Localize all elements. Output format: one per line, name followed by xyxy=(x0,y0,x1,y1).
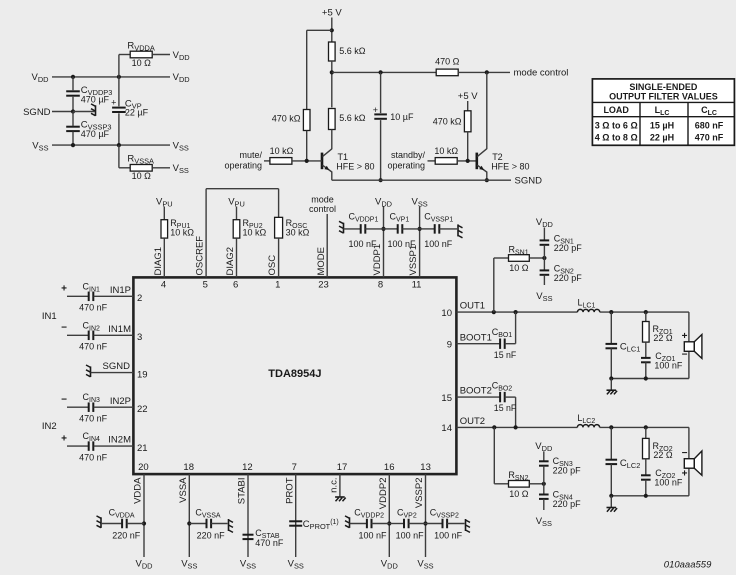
resistor RPU2 xyxy=(233,218,266,238)
wire +5V T2 down xyxy=(467,101,469,111)
svg-text:−: − xyxy=(682,448,688,459)
pin label VSSP2 xyxy=(414,478,425,509)
svg-text:10 Ω: 10 Ω xyxy=(509,263,529,273)
pin number 17 xyxy=(337,462,348,473)
svg-text:VSS​: VSS​ xyxy=(417,559,433,571)
wire SGND pin19 xyxy=(91,372,134,374)
junction xyxy=(187,521,191,525)
wire to RVDDA xyxy=(119,55,130,77)
junction xyxy=(492,425,496,429)
wire mode rail right xyxy=(458,71,510,73)
svg-text:BOOT1: BOOT1 xyxy=(460,332,492,343)
svg-text:CIN1​: CIN1​ xyxy=(83,281,101,293)
wire SGND rail xyxy=(332,179,511,181)
pin label IN1P xyxy=(110,285,131,296)
pin number 21 xyxy=(137,443,148,454)
pin label OUT2 xyxy=(460,416,485,427)
wire LLC2 to speaker xyxy=(600,426,689,428)
svg-text:CIN4​: CIN4​ xyxy=(83,431,101,443)
svg-text:VDD​: VDD​ xyxy=(173,72,190,84)
svg-text:470 nF: 470 nF xyxy=(79,303,108,313)
wire BOOT2 pin15 xyxy=(456,396,500,398)
wire BOOT1 pin9 xyxy=(456,343,500,345)
capacitor CZO2 xyxy=(641,459,683,496)
node SGND label right xyxy=(515,176,543,187)
svg-text:RVSSA​: RVSSA​ xyxy=(127,154,154,166)
svg-text:VSS​: VSS​ xyxy=(32,140,48,152)
svg-text:CVDDP1​: CVDDP1​ xyxy=(349,212,379,224)
resistor 470 kOhm (T1 base pullup) xyxy=(272,110,310,131)
wire pin7 PROT xyxy=(295,474,297,557)
wire emitter T1 to SGND rail xyxy=(331,172,333,181)
resistor RSN2 xyxy=(508,470,529,499)
svg-text:+: + xyxy=(61,434,67,445)
svg-text:18: 18 xyxy=(183,462,194,473)
svg-text:IN2: IN2 xyxy=(42,421,57,432)
svg-text:2: 2 xyxy=(137,293,142,304)
svg-text:22 Ω: 22 Ω xyxy=(653,333,673,343)
wire pin5 OSCREF bracket xyxy=(206,189,279,278)
svg-text:10: 10 xyxy=(441,308,452,319)
svg-text:470 nF: 470 nF xyxy=(79,452,108,462)
junction xyxy=(381,227,385,231)
junction xyxy=(423,521,427,525)
wire pin18 VSSA xyxy=(188,474,190,557)
svg-text:OUT2: OUT2 xyxy=(460,416,485,427)
junction xyxy=(609,494,613,498)
svg-text:15: 15 xyxy=(441,393,452,404)
capacitor CVP2 xyxy=(389,507,425,540)
junction xyxy=(379,70,383,74)
pin label OUT1 xyxy=(460,301,485,312)
junction xyxy=(330,28,334,32)
svg-text:10 kΩ: 10 kΩ xyxy=(270,146,294,156)
svg-text:100 nF: 100 nF xyxy=(396,531,425,541)
node VDD snubber2 xyxy=(535,441,552,453)
capacitor CBO1 xyxy=(492,312,517,360)
svg-text:LOAD: LOAD xyxy=(603,105,629,115)
wire T2 emitter xyxy=(486,172,488,181)
node VSS pin18 xyxy=(181,559,197,571)
ground rake right of CVSSA xyxy=(229,519,234,532)
svg-text:IN2P: IN2P xyxy=(110,396,131,407)
pin number 15 xyxy=(441,393,452,404)
svg-text:operating: operating xyxy=(224,160,262,170)
node VSS label (RVSSA) xyxy=(173,163,189,175)
svg-text:VDD​: VDD​ xyxy=(381,559,398,571)
svg-text:220 pF: 220 pF xyxy=(554,243,583,253)
ground rake right of CVSSP1 xyxy=(458,224,463,237)
resistor RZO2 xyxy=(643,427,673,460)
node mute/operating xyxy=(224,150,262,170)
svg-text:10 µF: 10 µF xyxy=(390,112,414,122)
svg-text:220 pF: 220 pF xyxy=(553,466,582,476)
svg-text:100 nF: 100 nF xyxy=(434,531,463,541)
wire speaker1 vertical xyxy=(688,312,690,378)
capacitor CPROT xyxy=(289,519,339,531)
ground sgnd rake xyxy=(73,104,96,116)
node VPU pin4 xyxy=(156,197,173,209)
resistor 470 Ohm (mode) xyxy=(435,57,460,76)
wire bottom rail out2 xyxy=(611,495,689,497)
junction xyxy=(644,425,648,429)
svg-text:15 nF: 15 nF xyxy=(494,403,517,413)
svg-text:22 µH: 22 µH xyxy=(650,132,674,142)
svg-text:1: 1 xyxy=(275,279,280,290)
junction xyxy=(485,178,489,182)
wire VDD rail xyxy=(52,76,170,78)
pin number 18 xyxy=(183,462,194,473)
resistor ROSC xyxy=(275,217,310,238)
svg-text:3: 3 xyxy=(137,332,142,343)
junction xyxy=(71,109,75,113)
wire between resistors xyxy=(331,61,333,107)
wire +5V down xyxy=(331,18,333,43)
svg-text:SGND: SGND xyxy=(23,107,51,118)
figure id 010aaa559 xyxy=(664,559,712,570)
wire RSN2 to CSN junction xyxy=(529,483,543,485)
svg-text:470 µF: 470 µF xyxy=(81,95,110,105)
wire 470k to base xyxy=(306,131,308,161)
svg-text:OSC: OSC xyxy=(267,255,278,276)
wire pin6 upper xyxy=(236,207,238,220)
pin number 1 xyxy=(275,279,280,290)
svg-text:−: − xyxy=(682,350,688,361)
svg-text:+: + xyxy=(111,98,116,108)
wire standby stub xyxy=(428,160,436,162)
resistor 470 kOhm (T2) xyxy=(433,111,471,132)
wire OUT1 pin10 xyxy=(456,311,577,313)
wire 10k to T1 base xyxy=(292,160,322,162)
svg-text:VDD​: VDD​ xyxy=(32,72,49,84)
svg-text:470 nF: 470 nF xyxy=(695,132,724,142)
pin label SGND xyxy=(103,361,131,372)
wire CVSSP3 to VSS xyxy=(72,112,74,146)
svg-text:5.6 kΩ: 5.6 kΩ xyxy=(339,46,366,56)
capacitor CVDDP3 xyxy=(66,77,112,112)
node VDD pin16 xyxy=(381,559,398,571)
svg-text:OUT1: OUT1 xyxy=(460,301,485,312)
pin label n.c. xyxy=(329,478,340,493)
node VDD label right xyxy=(173,72,190,84)
junction xyxy=(609,376,613,380)
ground rake left of CVDDP2 xyxy=(345,516,350,528)
inductor LLC2 xyxy=(577,413,599,428)
node VSS label left xyxy=(32,140,48,152)
svg-text:IN1P: IN1P xyxy=(110,285,131,296)
op-amp U1 TDA8954J body xyxy=(133,277,456,474)
capacitor CVP xyxy=(111,77,148,145)
wire pin6 DIAG2 xyxy=(236,238,238,277)
svg-text:VSS​: VSS​ xyxy=(240,559,256,571)
pin number 22 xyxy=(137,404,148,415)
svg-text:470 nF: 470 nF xyxy=(79,342,108,352)
resistor 5.6 kOhm lower xyxy=(329,109,366,130)
svg-text:RVDDA​: RVDDA​ xyxy=(127,40,154,52)
svg-text:220 nF: 220 nF xyxy=(197,531,226,541)
capacitor 10uF xyxy=(373,72,414,180)
svg-text:mode control: mode control xyxy=(514,68,569,79)
node IN2 xyxy=(42,421,57,432)
junction xyxy=(117,75,121,79)
svg-text:HFE > 80: HFE > 80 xyxy=(491,161,529,171)
svg-text:470 kΩ: 470 kΩ xyxy=(433,117,462,127)
svg-text:control: control xyxy=(309,204,336,214)
ground rake right of CVSSP2 xyxy=(466,519,471,532)
svg-text:LLC1​: LLC1​ xyxy=(578,298,596,310)
svg-text:23: 23 xyxy=(318,279,329,290)
capacitor CVDDP1 xyxy=(344,212,384,250)
pin label DIAG1 xyxy=(153,247,164,276)
svg-text:17: 17 xyxy=(337,462,348,473)
resistor RPU1 xyxy=(161,218,194,238)
wire pin4 upper xyxy=(163,207,165,220)
node VDD label left xyxy=(32,72,49,84)
wire RSN1 to CSN junction xyxy=(529,257,544,259)
svg-text:VSS​: VSS​ xyxy=(536,516,552,528)
pin label VDDP1 xyxy=(372,244,383,276)
loudspeaker 2 xyxy=(682,448,702,479)
pin number 19 xyxy=(137,369,148,380)
capacitor CVSSA xyxy=(189,507,227,540)
svg-text:VSSP2: VSSP2 xyxy=(414,478,425,509)
node mode control label xyxy=(514,68,569,79)
svg-text:HFE > 80: HFE > 80 xyxy=(336,161,374,171)
pin label VSSA xyxy=(178,477,189,503)
svg-text:n.c.: n.c. xyxy=(329,478,340,493)
svg-text:22 Ω: 22 Ω xyxy=(653,450,673,460)
wire pin16 VDDP2 xyxy=(388,474,390,557)
pin number 2 xyxy=(137,293,142,304)
node standby/operating xyxy=(387,150,425,170)
ground rake left of CVDDA xyxy=(97,516,102,528)
pin number 3 xyxy=(137,332,142,343)
capacitor CSN4 xyxy=(539,484,581,510)
svg-text:MODE: MODE xyxy=(316,247,327,276)
pin label MODE xyxy=(316,247,327,276)
pin label OSC xyxy=(267,255,278,276)
junction mode rail xyxy=(330,70,334,74)
svg-text:4: 4 xyxy=(161,279,166,290)
svg-text:SINGLE-ENDED: SINGLE-ENDED xyxy=(629,82,698,92)
wire pin8 VDDP1 xyxy=(383,207,385,278)
svg-text:IN1M: IN1M xyxy=(108,324,131,335)
node VDD snubber1 xyxy=(536,217,553,229)
junction xyxy=(644,376,648,380)
pin label VSSP1 xyxy=(408,245,419,276)
capacitor CSN3 xyxy=(539,451,581,484)
svg-text:+: + xyxy=(682,331,688,342)
wire bracket to ROSC xyxy=(278,189,280,218)
svg-text:DIAG2: DIAG2 xyxy=(225,247,236,276)
capacitor CVDDA xyxy=(101,507,144,540)
junction xyxy=(609,310,613,314)
svg-text:4 Ω to 8 Ω: 4 Ω to 8 Ω xyxy=(595,132,638,142)
junction xyxy=(379,178,383,182)
svg-text:10 kΩ: 10 kΩ xyxy=(170,227,194,237)
svg-text:+: + xyxy=(373,105,378,115)
capacitor CSN1 xyxy=(540,228,583,259)
node VDD label (RVDDA) xyxy=(173,50,190,62)
svg-text:VDD​: VDD​ xyxy=(535,441,552,453)
capacitor CVDDP2 xyxy=(350,507,390,540)
svg-text:10 Ω: 10 Ω xyxy=(132,58,152,68)
svg-text:22 µF: 22 µF xyxy=(125,107,149,117)
svg-text:SGND: SGND xyxy=(515,176,543,187)
node IN1 xyxy=(42,311,57,322)
svg-text:OUTPUT FILTER VALUES: OUTPUT FILTER VALUES xyxy=(609,92,718,102)
svg-text:+: + xyxy=(61,284,67,295)
svg-text:21: 21 xyxy=(137,443,148,454)
ground below CLC2 xyxy=(607,496,618,512)
junction xyxy=(466,159,470,163)
capacitor CVSSP2 xyxy=(426,507,465,540)
svg-text:VDD​: VDD​ xyxy=(173,50,190,62)
svg-text:CPROT​(1)​: CPROT​(1)​ xyxy=(303,519,339,531)
svg-text:15 µH: 15 µH xyxy=(650,121,674,131)
junction xyxy=(142,521,146,525)
capacitor CBO2 xyxy=(492,381,517,428)
pin label PROT xyxy=(284,477,295,504)
capacitor CIN2 xyxy=(61,320,133,351)
svg-text:8: 8 xyxy=(378,279,383,290)
svg-text:CLC2​: CLC2​ xyxy=(620,458,640,470)
svg-text:VSS​: VSS​ xyxy=(536,291,552,303)
svg-text:220 nF: 220 nF xyxy=(112,531,141,541)
svg-text:14: 14 xyxy=(441,423,452,434)
svg-text:19: 19 xyxy=(137,369,148,380)
pin number 10 xyxy=(441,308,452,319)
transistor T2 xyxy=(477,149,530,172)
ground below CLC1 xyxy=(607,379,618,395)
svg-text:standby/: standby/ xyxy=(391,150,426,160)
node VPU pin6 xyxy=(228,197,245,209)
svg-text:CVP1​: CVP1​ xyxy=(390,212,410,224)
wire collector T1 xyxy=(331,130,333,150)
node VSS pin13 xyxy=(417,559,433,571)
svg-text:6: 6 xyxy=(233,279,238,290)
capacitor CSTAB xyxy=(243,528,284,548)
svg-text:DIAG1: DIAG1 xyxy=(153,247,164,276)
svg-text:VDD​: VDD​ xyxy=(135,559,152,571)
svg-text:VSS​: VSS​ xyxy=(173,163,189,175)
svg-text:OSCREF: OSCREF xyxy=(195,236,206,276)
node VSS snubber1 xyxy=(536,291,552,303)
svg-text:VSSA: VSSA xyxy=(178,477,189,503)
pin label VDDP2 xyxy=(378,478,389,510)
svg-text:CVP2​: CVP2​ xyxy=(397,507,417,519)
svg-text:100 nF: 100 nF xyxy=(349,239,378,249)
wire snubber1 drop xyxy=(494,258,509,312)
pin label IN2M xyxy=(108,435,131,446)
pin number 8 xyxy=(378,279,383,290)
svg-text:CBO2​: CBO2​ xyxy=(492,381,513,393)
svg-text:−: − xyxy=(61,323,67,334)
wire pin20 VDDA xyxy=(143,474,145,557)
svg-text:CVSSP1​: CVSSP1​ xyxy=(424,212,453,224)
wire speaker2 vertical xyxy=(688,427,690,495)
svg-text:5.6 kΩ: 5.6 kΩ xyxy=(339,113,366,123)
wire 470k to T2 base xyxy=(467,132,469,161)
capacitor CIN4 xyxy=(61,431,133,462)
svg-text:680 nF: 680 nF xyxy=(695,121,724,131)
transistor T1 xyxy=(322,149,375,172)
svg-text:SGND: SGND xyxy=(103,361,131,372)
wire branch to 470k xyxy=(307,30,332,109)
capacitor CVP1 xyxy=(384,212,420,250)
svg-text:10 Ω: 10 Ω xyxy=(509,489,529,499)
pin number 12 xyxy=(242,462,253,473)
svg-text:470 µF: 470 µF xyxy=(81,129,110,139)
pin number 6 xyxy=(233,279,238,290)
capacitor CVSSP3 xyxy=(66,119,111,139)
junction xyxy=(305,159,309,163)
wire pin11 VSSP1 xyxy=(419,207,421,278)
wire to RVSSA xyxy=(119,145,130,168)
svg-text:VSS​: VSS​ xyxy=(288,559,304,571)
pin label STABI xyxy=(237,478,248,505)
inductor LLC1 xyxy=(578,298,600,313)
svg-text:10 kΩ: 10 kΩ xyxy=(434,146,458,156)
svg-text:IN1: IN1 xyxy=(42,311,57,322)
wire RVSSA to VSS xyxy=(152,167,170,169)
pin number 9 xyxy=(447,339,452,350)
svg-text:CBO1​: CBO1​ xyxy=(492,327,513,339)
pin number 13 xyxy=(420,462,431,473)
junction xyxy=(514,310,518,314)
wire pin17 nc xyxy=(339,474,341,497)
pin label BOOT1 xyxy=(460,332,492,343)
wire OUT2 pin14 xyxy=(456,426,577,428)
svg-text:CVSSP2​: CVSSP2​ xyxy=(430,507,459,519)
svg-text:220 pF: 220 pF xyxy=(553,499,582,509)
junction xyxy=(485,70,489,74)
resistor 10 kOhm (T1 base) xyxy=(270,146,294,164)
wire pin13 VSSP2 xyxy=(425,474,427,557)
pin number 5 xyxy=(203,279,208,290)
capacitor CZO1 xyxy=(641,342,683,378)
junction xyxy=(418,227,422,231)
node VDD (pin8) xyxy=(375,197,392,209)
capacitor CIN3 xyxy=(61,392,133,423)
junction xyxy=(542,482,546,486)
wire pin12 STABI xyxy=(247,474,249,557)
svg-text:470 kΩ: 470 kΩ xyxy=(272,114,301,124)
node VSS pin7 xyxy=(288,559,304,571)
svg-text:BOOT2: BOOT2 xyxy=(460,386,492,397)
svg-text:470 nF: 470 nF xyxy=(79,414,108,424)
pin label BOOT2 xyxy=(460,386,492,397)
junction xyxy=(492,310,496,314)
svg-text:10 kΩ: 10 kΩ xyxy=(243,227,267,237)
svg-text:11: 11 xyxy=(412,279,422,290)
node VSS label right xyxy=(173,140,189,152)
svg-text:−: − xyxy=(61,395,67,406)
table single-ended output filter values xyxy=(592,79,734,145)
node +5V T1 xyxy=(322,7,342,18)
junction xyxy=(514,425,518,429)
junction xyxy=(609,425,613,429)
capacitor CVSSP1 xyxy=(420,212,457,250)
svg-text:mute/: mute/ xyxy=(239,150,262,160)
svg-text:30 kΩ: 30 kΩ xyxy=(286,227,310,237)
wire RVDDA to VDD xyxy=(152,54,170,56)
wire snubber2 drop xyxy=(494,427,508,483)
pin label DIAG2 xyxy=(225,247,236,276)
svg-text:100 nF: 100 nF xyxy=(654,478,683,488)
svg-text:100 nF: 100 nF xyxy=(424,239,453,249)
svg-text:VDD​: VDD​ xyxy=(536,217,553,229)
